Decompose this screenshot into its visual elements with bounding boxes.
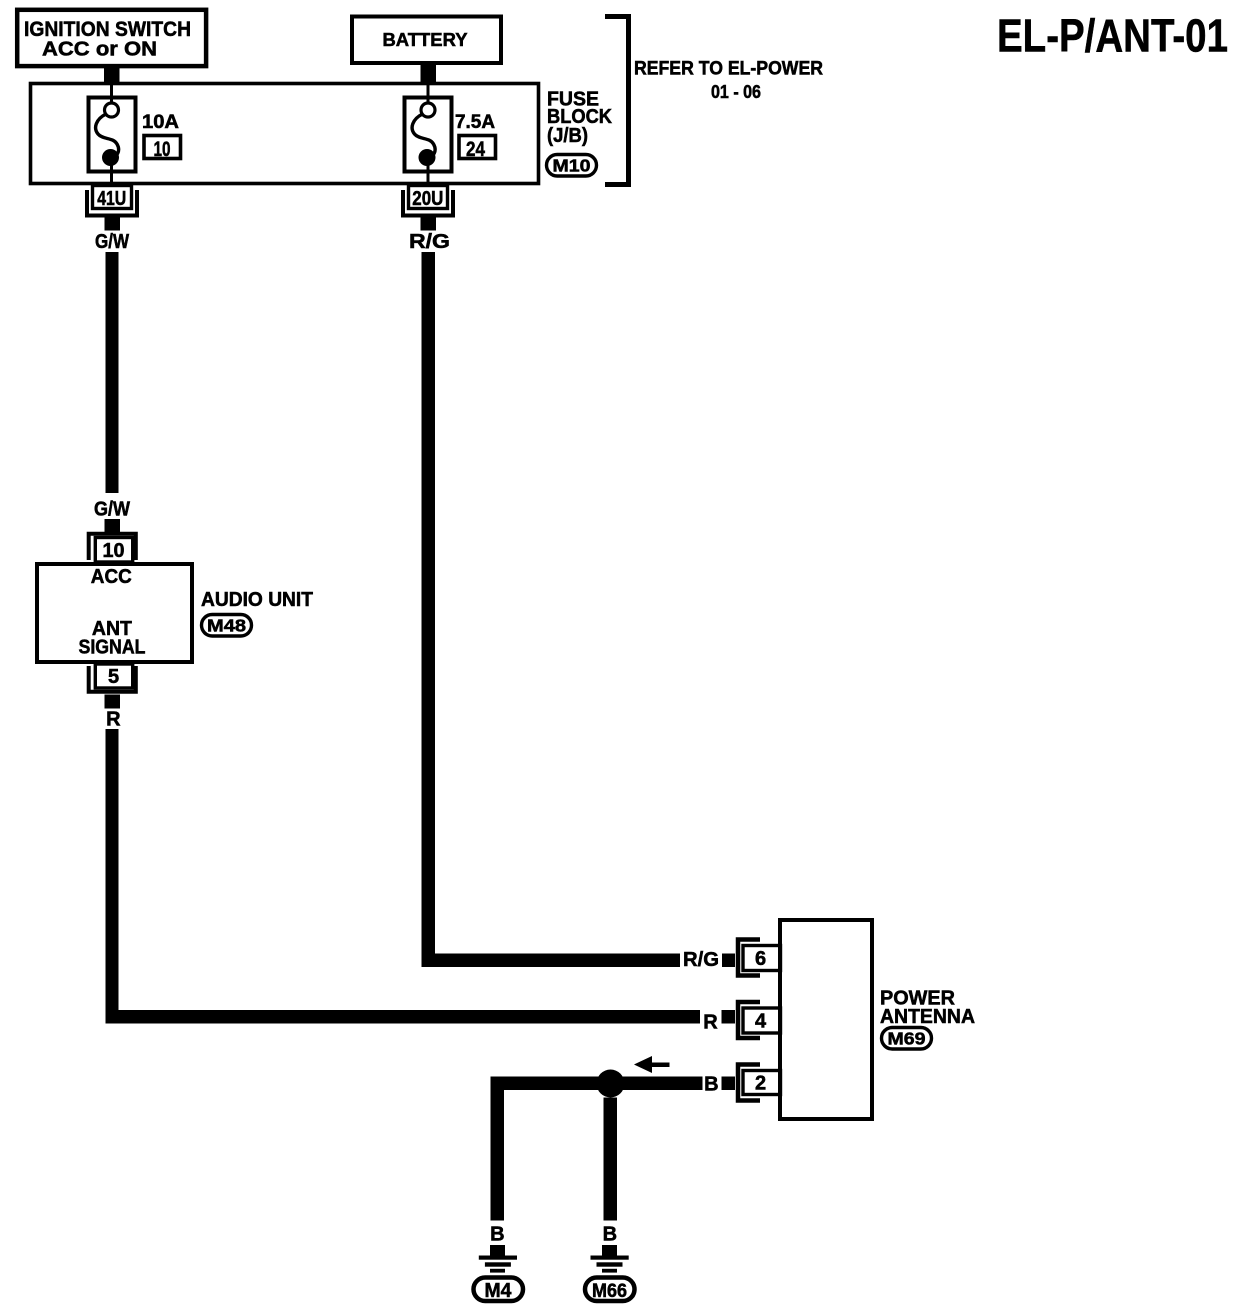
- wire G/W vertical: [106, 252, 119, 493]
- power antenna box: [780, 920, 872, 1119]
- connector pin 2: [738, 1065, 781, 1101]
- svg-text:B: B: [603, 1224, 617, 1246]
- wire stub above connector 10: [105, 519, 121, 532]
- connector M69 oval: [882, 1028, 932, 1050]
- wire B middle vertical to M66: [604, 1098, 618, 1221]
- svg-text:7.5A: 7.5A: [455, 112, 495, 133]
- svg-text:B: B: [704, 1074, 718, 1096]
- audio unit box: [37, 564, 192, 662]
- wire R/G vertical: [422, 252, 436, 967]
- battery box: [352, 17, 501, 64]
- wire stub at pin 6: [722, 954, 735, 968]
- svg-text:R/G: R/G: [683, 949, 719, 971]
- svg-text:ACC or ON: ACC or ON: [42, 38, 157, 60]
- svg-text:G/W: G/W: [94, 499, 130, 521]
- fuse F1 number box 10: [144, 136, 181, 162]
- svg-text:AUDIO UNIT: AUDIO UNIT: [201, 589, 313, 611]
- svg-text:01 - 06: 01 - 06: [711, 82, 761, 102]
- svg-text:REFER TO EL-POWER: REFER TO EL-POWER: [634, 59, 823, 80]
- svg-text:R: R: [106, 709, 121, 731]
- connector M10 oval: [547, 155, 597, 177]
- connector pin 6: [738, 940, 781, 976]
- svg-text:41U: 41U: [97, 188, 126, 210]
- svg-text:(J/B): (J/B): [547, 125, 588, 147]
- svg-text:G/W: G/W: [95, 231, 129, 253]
- connector 5 (audio unit): [89, 664, 136, 692]
- ground M4: [474, 1245, 524, 1302]
- svg-text:M4: M4: [485, 1280, 513, 1302]
- fuse F1 10A: [89, 85, 136, 186]
- wire R/G horizontal: [422, 954, 681, 968]
- svg-text:EL-P/ANT-01: EL-P/ANT-01: [997, 10, 1228, 62]
- refer bracket: [605, 17, 629, 185]
- svg-text:5: 5: [108, 666, 119, 688]
- svg-text:SIGNAL: SIGNAL: [79, 636, 146, 659]
- wire stub below 20U: [421, 218, 437, 231]
- note REFER TO EL-POWER 01 - 06: [634, 59, 823, 103]
- connector pin 4: [738, 1002, 781, 1038]
- fuse block box: [31, 84, 539, 184]
- wire stub below 41U: [105, 218, 121, 231]
- svg-text:20U: 20U: [412, 188, 443, 210]
- svg-text:4: 4: [755, 1011, 767, 1033]
- junction node: [597, 1070, 625, 1098]
- svg-text:ACC: ACC: [91, 565, 132, 588]
- connector M48 oval: [202, 615, 252, 637]
- svg-text:ANTENNA: ANTENNA: [880, 1005, 975, 1028]
- svg-text:BATTERY: BATTERY: [383, 29, 469, 50]
- svg-text:2: 2: [755, 1073, 766, 1095]
- svg-text:6: 6: [755, 948, 766, 970]
- connector 20U: [403, 186, 453, 216]
- svg-text:10: 10: [154, 138, 171, 161]
- power antenna label: [880, 987, 975, 1028]
- svg-text:M66: M66: [592, 1281, 627, 1302]
- svg-text:10A: 10A: [142, 112, 179, 133]
- wire stub battery to fuse block: [421, 63, 437, 85]
- svg-text:M69: M69: [888, 1029, 926, 1049]
- title EL-P/ANT-01: [997, 10, 1228, 62]
- connector 10 (audio unit): [89, 534, 136, 562]
- wire B horizontal: [491, 1077, 703, 1091]
- ignition switch box: [17, 10, 206, 66]
- wire B left vertical to M4: [491, 1077, 505, 1221]
- svg-text:B: B: [490, 1224, 504, 1246]
- svg-text:M10: M10: [553, 156, 591, 176]
- connector 41U: [87, 186, 137, 216]
- ground M66: [585, 1245, 635, 1302]
- wire stub at pin 2: [722, 1077, 736, 1091]
- svg-text:R/G: R/G: [409, 231, 450, 253]
- svg-text:R: R: [703, 1012, 718, 1034]
- fuse F2 number box 24: [459, 136, 496, 162]
- wire R horizontal: [106, 1010, 701, 1024]
- arrow pointing to junction: [634, 1056, 670, 1073]
- svg-text:10: 10: [103, 540, 125, 562]
- wire stub at pin 4: [722, 1010, 736, 1024]
- wire stub below connector 5: [105, 695, 121, 709]
- svg-text:M48: M48: [207, 616, 246, 636]
- fuse F2 7.5A: [405, 85, 452, 186]
- svg-text:24: 24: [466, 138, 485, 161]
- wire R vertical: [106, 729, 119, 1024]
- wire stub ignition switch to fuse block: [104, 66, 120, 85]
- fuse block label: [547, 89, 613, 148]
